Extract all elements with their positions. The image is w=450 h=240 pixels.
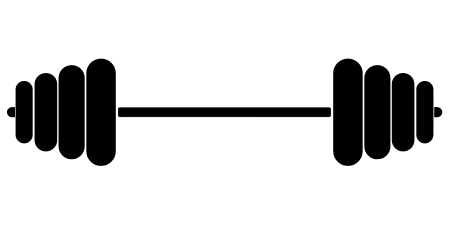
left plate 2 xyxy=(35,73,57,151)
barbell bar xyxy=(118,108,331,117)
left plate 4 (largest) xyxy=(87,59,116,166)
right plate 1 (smallest) xyxy=(417,81,434,143)
right bar end nub xyxy=(435,107,443,117)
left plate 3 xyxy=(59,65,85,159)
right plate 4 (largest) xyxy=(334,59,363,166)
left bar end nub xyxy=(7,107,14,117)
left plate 1 (smallest) xyxy=(16,81,33,143)
right plate 2 xyxy=(392,73,414,151)
right plate 3 xyxy=(365,65,391,159)
